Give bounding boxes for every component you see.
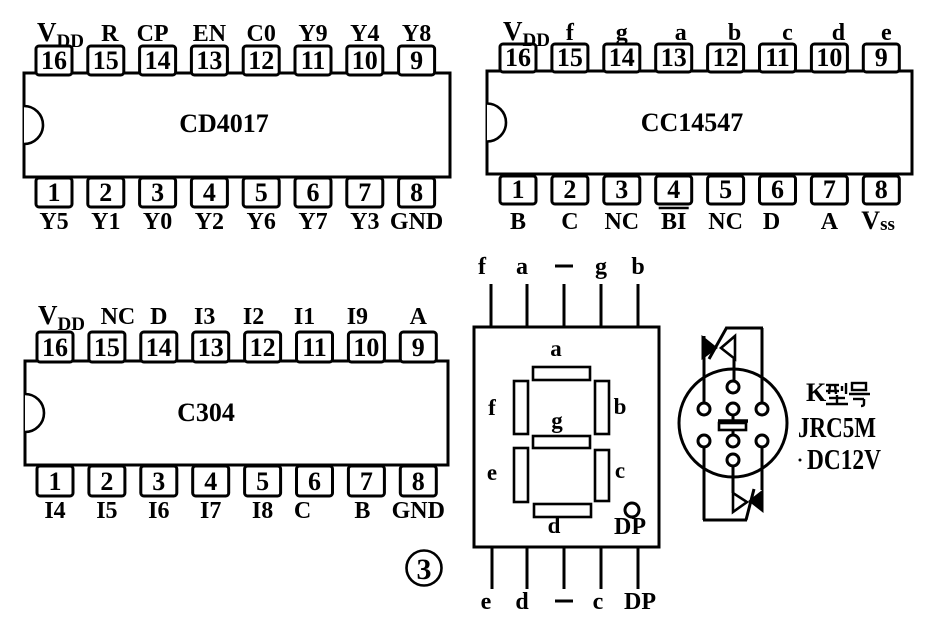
svg-text:9: 9 <box>410 46 423 75</box>
CC14547 pin 10 box <box>811 43 847 72</box>
svg-text:g: g <box>595 254 607 280</box>
svg-text:15: 15 <box>557 43 583 72</box>
display segment e <box>514 448 528 502</box>
svg-text:I8: I8 <box>252 498 273 524</box>
CC14547 pin 8 label Vss <box>861 206 895 235</box>
svg-text:R: R <box>101 21 119 47</box>
svg-text:CP: CP <box>137 21 169 47</box>
display segment label d <box>548 513 561 538</box>
C304 pin 14 box <box>141 332 177 362</box>
svg-text:5: 5 <box>255 178 268 207</box>
svg-text:K: K <box>806 378 827 407</box>
relay pin lower-center <box>727 435 739 447</box>
svg-text:A: A <box>410 304 428 330</box>
CD4017 pin 16 label VDD <box>37 17 84 52</box>
CC14547 pin 9 label e <box>881 20 892 46</box>
svg-text:12: 12 <box>713 43 739 72</box>
svg-text:Y9: Y9 <box>298 21 327 47</box>
CD4017 pin 6 box <box>295 178 331 207</box>
svg-text:6: 6 <box>308 467 321 496</box>
relay label JRC5M <box>798 413 876 444</box>
C304 pin 5 box <box>245 466 281 496</box>
svg-text:I9: I9 <box>347 304 368 330</box>
top contact filled arrow <box>702 336 717 359</box>
svg-text:I6: I6 <box>148 498 169 524</box>
svg-text:I5: I5 <box>96 498 117 524</box>
CC14547 pin 13 box <box>656 43 692 72</box>
wire from relay upper-left pin up to top contact <box>703 336 706 403</box>
svg-text:15: 15 <box>94 333 120 362</box>
svg-text:C0: C0 <box>247 21 276 47</box>
svg-text:12: 12 <box>250 333 276 362</box>
svg-text:b: b <box>631 254 644 280</box>
svg-text:3: 3 <box>417 553 432 586</box>
CD4017 pin 3 box <box>140 178 176 207</box>
svg-text:Y7: Y7 <box>298 209 327 235</box>
svg-text:D: D <box>150 304 167 330</box>
CD4017 pin 5 box <box>243 178 279 207</box>
display bottom lead label dash <box>555 600 573 603</box>
svg-text:d: d <box>548 513 561 538</box>
svg-text:1: 1 <box>512 175 525 204</box>
svg-text:14: 14 <box>146 333 172 362</box>
svg-text:Y5: Y5 <box>39 209 68 235</box>
CC14547 pin 1 label B <box>510 209 526 235</box>
CD4017 pin 10 box <box>347 46 383 75</box>
svg-text:e: e <box>487 460 497 485</box>
C304 pin 15 label NC <box>101 304 136 330</box>
display bottom lead label d <box>515 589 529 615</box>
display segment label a <box>550 336 562 361</box>
IC CC14547 body <box>487 71 912 174</box>
svg-text:c: c <box>782 20 793 46</box>
CD4017 pin 3 label Y0 <box>143 209 172 235</box>
display bottom lead e <box>491 547 494 589</box>
display segment b <box>595 381 609 434</box>
wire top horizontal <box>726 327 763 330</box>
CD4017 pin 14 box <box>140 46 176 75</box>
C304 pin 11 label I1 <box>294 304 315 330</box>
svg-text:I7: I7 <box>200 498 221 524</box>
svg-text:2: 2 <box>99 178 112 207</box>
svg-text:A: A <box>821 209 839 235</box>
svg-text:DP: DP <box>614 514 646 540</box>
svg-text:6: 6 <box>771 175 784 204</box>
CC14547 pin 9 box <box>863 43 899 72</box>
CC14547 pin 11 label c <box>782 20 793 46</box>
display top lead g <box>600 284 603 327</box>
svg-text:4: 4 <box>204 467 217 496</box>
CC14547 pin 7 box <box>811 175 847 204</box>
IC CD4017 body <box>24 73 450 177</box>
CC14547 pin 6 label D <box>763 209 780 235</box>
bottom contact open arrow <box>733 493 747 512</box>
svg-text:CD4017: CD4017 <box>179 109 269 138</box>
svg-text:11: 11 <box>302 333 327 362</box>
CC14547 pin 16 label VDD <box>503 16 550 51</box>
display segment a <box>533 367 590 380</box>
svg-text:4: 4 <box>667 175 680 204</box>
svg-text:Y6: Y6 <box>247 209 276 235</box>
relay label K + Chinese "model" <box>806 378 870 407</box>
display top lead label a <box>516 254 528 280</box>
C304 pin 7 box <box>348 466 384 496</box>
C304 pin 13 box <box>193 332 229 362</box>
display segment label e <box>487 460 497 485</box>
top contact open arrow <box>721 336 735 359</box>
figure number 3 (circled) <box>407 551 442 587</box>
wire from lower-right pin down to filled arrow <box>761 447 764 490</box>
CC14547 pin 14 label g <box>616 20 628 46</box>
C304 pin 8 box <box>400 466 436 496</box>
svg-text:DC12V: DC12V <box>807 445 881 476</box>
CD4017 pin 7 box <box>347 178 383 207</box>
svg-text:a: a <box>675 20 687 46</box>
CD4017 pin 5 label Y6 <box>247 209 276 235</box>
svg-text:8: 8 <box>412 467 425 496</box>
svg-text:g: g <box>551 408 563 433</box>
CC14547 pin 12 box <box>708 43 744 72</box>
svg-text:b: b <box>728 20 741 46</box>
svg-text:B: B <box>354 498 370 524</box>
svg-text:f: f <box>488 395 496 420</box>
svg-text:I4: I4 <box>44 498 65 524</box>
CD4017 pin 14 label CP <box>137 21 169 47</box>
svg-text:Y2: Y2 <box>195 209 224 235</box>
display bottom lead c <box>600 547 603 589</box>
wire right vertical down to upper-right pin <box>761 328 764 403</box>
svg-text:2: 2 <box>100 467 113 496</box>
svg-text:1: 1 <box>49 467 62 496</box>
relay K body circle <box>679 369 787 477</box>
svg-text:2: 2 <box>563 175 576 204</box>
svg-text:d: d <box>515 589 529 615</box>
svg-text:e: e <box>881 20 892 46</box>
svg-text:f: f <box>566 20 575 46</box>
svg-text:7: 7 <box>358 178 371 207</box>
display top lead label dash <box>555 265 573 268</box>
svg-text:14: 14 <box>609 43 635 72</box>
C304 pin 7 label B <box>354 498 370 524</box>
display segment g <box>533 436 590 448</box>
svg-text:6: 6 <box>307 178 320 207</box>
svg-text:B: B <box>510 209 526 235</box>
display top lead label f <box>478 254 487 280</box>
svg-text:11: 11 <box>765 43 790 72</box>
C304 pin 16 box <box>37 332 73 362</box>
CD4017 pin 8 box <box>399 178 435 207</box>
bottom contact filled arrow <box>749 490 763 512</box>
svg-text:I2: I2 <box>243 304 264 330</box>
svg-text:7: 7 <box>823 175 836 204</box>
relay pin upper-right <box>756 403 768 415</box>
svg-text:15: 15 <box>93 46 119 75</box>
svg-text:NC: NC <box>604 209 639 235</box>
CD4017 pin 13 label EN <box>193 21 227 47</box>
C304 pin 8 label GND <box>392 498 445 524</box>
display decimal point DP <box>625 503 639 517</box>
svg-text:8: 8 <box>875 175 888 204</box>
CD4017 pin 11 box <box>295 46 331 75</box>
display bottom lead label DP <box>624 589 656 615</box>
display segment d <box>534 504 591 517</box>
CC14547 pin 15 label f <box>566 20 575 46</box>
CC14547 pin 11 box <box>760 43 796 72</box>
CC14547 pin 2 box <box>552 175 588 204</box>
relay pin bottom-center <box>727 454 739 466</box>
svg-text:EN: EN <box>193 21 227 47</box>
C304 pin 15 box <box>89 332 125 362</box>
svg-text:Y0: Y0 <box>143 209 172 235</box>
svg-text:12: 12 <box>248 46 274 75</box>
CC14547 pin 4 label BI(bar) <box>659 208 689 235</box>
svg-text:13: 13 <box>198 333 224 362</box>
relay armature symbol <box>718 415 748 435</box>
svg-text:I3: I3 <box>194 304 215 330</box>
C304 pin 16 label VDD <box>38 300 85 335</box>
svg-text:7: 7 <box>360 467 373 496</box>
svg-text:f: f <box>478 254 487 280</box>
CC14547 pin 7 label A <box>821 209 839 235</box>
svg-text:NC: NC <box>708 209 743 235</box>
C304 pin 3 label I6 <box>148 498 169 524</box>
C304 pin 6 box <box>297 466 333 496</box>
C304 pin 1 box <box>37 466 73 496</box>
svg-text:13: 13 <box>196 46 222 75</box>
display segment label f <box>488 395 496 420</box>
CC14547 pin 10 label d <box>832 20 846 46</box>
IC C304 body <box>25 361 448 465</box>
svg-text:DP: DP <box>624 589 656 615</box>
C304 pin 2 label I5 <box>96 498 117 524</box>
C304 pin 3 box <box>141 466 177 496</box>
svg-text:Y4: Y4 <box>350 21 379 47</box>
C304 pin 4 label I7 <box>200 498 221 524</box>
svg-text:9: 9 <box>875 43 888 72</box>
svg-text:a: a <box>550 336 562 361</box>
display segment label g <box>551 408 563 433</box>
relay pin top-center <box>727 381 739 393</box>
svg-text:Y8: Y8 <box>402 21 431 47</box>
display DP label <box>614 514 646 540</box>
CD4017 pin 15 box <box>88 46 124 75</box>
CC14547 pin 1 box <box>500 175 536 204</box>
C304 pin 13 label I3 <box>194 304 215 330</box>
CC14547 pin 5 box <box>708 175 744 204</box>
display bottom lead label c <box>593 589 604 615</box>
display segment c <box>595 450 609 501</box>
C304 pin 1 label I4 <box>44 498 65 524</box>
CC14547 pin 12 label b <box>728 20 741 46</box>
svg-text:10: 10 <box>353 333 379 362</box>
svg-text:C: C <box>561 209 578 235</box>
svg-text:4: 4 <box>203 178 216 207</box>
CD4017 pin 8 label GND <box>390 209 443 235</box>
display bottom lead d <box>526 547 529 589</box>
CC14547 pin 4 box <box>656 175 692 204</box>
CD4017 pin 4 label Y2 <box>195 209 224 235</box>
CD4017 pin 16 box <box>36 46 72 75</box>
display top lead a <box>526 284 529 327</box>
display segment f <box>514 381 528 434</box>
relay pin upper-left <box>698 403 710 415</box>
CD4017 pin 12 box <box>243 46 279 75</box>
svg-text:a: a <box>516 254 528 280</box>
C304 pin 10 box <box>348 332 384 362</box>
svg-text:I1: I1 <box>294 304 315 330</box>
CC14547 pin 3 label NC <box>604 209 639 235</box>
display top lead b <box>637 284 640 327</box>
svg-text:9: 9 <box>412 333 425 362</box>
C304 pin 12 box <box>245 332 281 362</box>
svg-text:GND: GND <box>390 209 443 235</box>
svg-text:5: 5 <box>256 467 269 496</box>
C304 pin 14 label D <box>150 304 167 330</box>
C304 pin 9 label A <box>410 304 428 330</box>
relay pin upper-center <box>727 403 739 415</box>
display segment label c <box>615 458 625 483</box>
svg-text:11: 11 <box>301 46 326 75</box>
relay pin lower-left <box>698 435 710 447</box>
svg-text:10: 10 <box>816 43 842 72</box>
svg-text:5: 5 <box>719 175 732 204</box>
CC14547 pin 6 box <box>760 175 796 204</box>
wire from bottom-center pin to open arrow <box>732 466 735 493</box>
wire bottom horizontal <box>703 519 747 522</box>
display bottom lead dash <box>563 547 566 589</box>
top contact diagonal lead <box>709 327 727 359</box>
display top lead dash <box>563 284 566 327</box>
svg-text:8: 8 <box>410 178 423 207</box>
wire from relay lower-left pin down <box>703 447 706 520</box>
CD4017 pin 2 box <box>88 178 124 207</box>
svg-text:c: c <box>615 458 625 483</box>
CC14547 pin 13 label a <box>675 20 687 46</box>
C304 pin 2 box <box>89 466 125 496</box>
svg-text:e: e <box>481 589 492 615</box>
relay label DC12V <box>799 445 882 476</box>
CC14547 pin 3 box <box>604 175 640 204</box>
CD4017 pin 9 label Y8 <box>402 21 431 47</box>
svg-text:GND: GND <box>392 498 445 524</box>
svg-text:Y1: Y1 <box>91 209 120 235</box>
svg-text:3: 3 <box>152 467 165 496</box>
display bottom lead DP <box>637 547 640 589</box>
svg-text:16: 16 <box>42 333 68 362</box>
svg-text:3: 3 <box>615 175 628 204</box>
CC14547 pin 5 label NC <box>708 209 743 235</box>
C304 pin 11 box <box>297 332 333 362</box>
CD4017 pin 1 box <box>36 178 72 207</box>
CD4017 pin 15 label R <box>101 21 119 47</box>
svg-text:13: 13 <box>661 43 687 72</box>
display bottom lead label e <box>481 589 492 615</box>
display top lead label b <box>631 254 644 280</box>
CD4017 pin 1 label Y5 <box>39 209 68 235</box>
display segment label b <box>614 394 627 419</box>
C304 pin 5 label I8 <box>252 498 273 524</box>
CC14547 pin 16 box <box>500 43 536 72</box>
svg-text:BI: BI <box>661 209 686 235</box>
display top lead label g <box>595 254 607 280</box>
svg-text:C: C <box>294 498 311 524</box>
display top lead f <box>490 284 493 327</box>
svg-text:JRC5M: JRC5M <box>798 413 876 444</box>
svg-text:g: g <box>616 20 628 46</box>
svg-text:1: 1 <box>48 178 61 207</box>
CD4017 pin 11 label Y9 <box>298 21 327 47</box>
CD4017 pin 6 label Y7 <box>298 209 327 235</box>
svg-text:D: D <box>763 209 780 235</box>
CD4017 pin 9 box <box>399 46 435 75</box>
CD4017 pin 13 box <box>191 46 227 75</box>
C304 pin 6 label C <box>294 498 311 524</box>
CD4017 pin 7 label Y3 <box>350 209 379 235</box>
svg-text:d: d <box>832 20 846 46</box>
wire open-arrow base to top-center pin <box>733 359 736 381</box>
relay pin lower-right <box>756 435 768 447</box>
7-segment display body <box>474 327 659 547</box>
svg-text:14: 14 <box>145 46 171 75</box>
bottom contact diagonal lead <box>746 489 754 520</box>
svg-text:b: b <box>614 394 627 419</box>
CD4017 pin 4 box <box>191 178 227 207</box>
CC14547 pin 14 box <box>604 43 640 72</box>
C304 pin 10 label I9 <box>347 304 368 330</box>
svg-text:3: 3 <box>151 178 164 207</box>
CD4017 pin 12 label C0 <box>247 21 276 47</box>
C304 pin 9 box <box>400 332 436 362</box>
CC14547 pin 15 box <box>552 43 588 72</box>
svg-text:NC: NC <box>101 304 136 330</box>
C304 pin 4 box <box>193 466 229 496</box>
svg-text:c: c <box>593 589 604 615</box>
svg-text:10: 10 <box>352 46 378 75</box>
CD4017 pin 2 label Y1 <box>91 209 120 235</box>
svg-text:C304: C304 <box>177 398 235 427</box>
svg-text:CC14547: CC14547 <box>641 108 744 137</box>
CD4017 pin 10 label Y4 <box>350 21 379 47</box>
CC14547 pin 2 label C <box>561 209 578 235</box>
C304 pin 12 label I2 <box>243 304 264 330</box>
svg-text:Y3: Y3 <box>350 209 379 235</box>
CC14547 pin 8 box <box>863 175 899 204</box>
